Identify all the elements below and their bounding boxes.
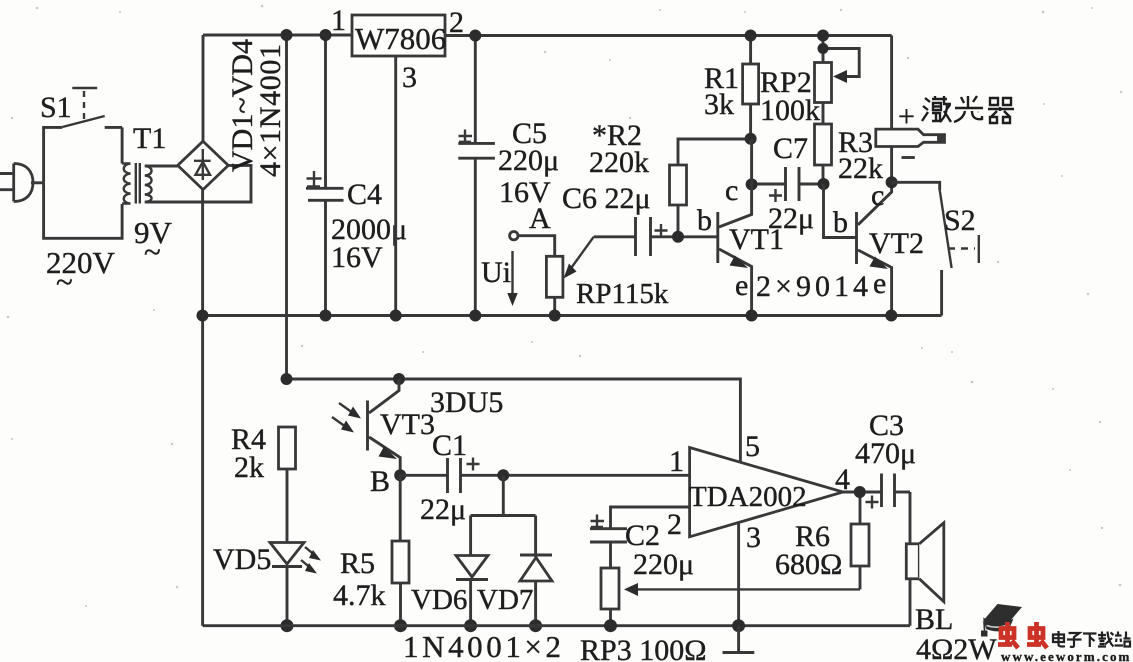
svg-text:C4: C4 [347,178,382,211]
svg-text:VD6: VD6 [411,584,467,616]
svg-text:3: 3 [402,61,417,94]
junction [886,176,898,188]
svg-text:VD5: VD5 [213,543,271,576]
svg-text:2k: 2k [234,451,264,484]
svg-text:3DU5: 3DU5 [430,386,503,419]
svg-text:5: 5 [745,430,760,463]
junction [885,310,897,322]
junction [732,619,745,632]
svg-text:680Ω: 680Ω [775,548,842,581]
svg-text:www.eeworm.com: www.eeworm.com [1001,649,1131,662]
svg-text:1: 1 [669,445,684,478]
junction [281,619,294,632]
svg-text:A: A [529,202,551,235]
svg-text:220μ: 220μ [498,144,559,177]
svg-text:2: 2 [667,508,682,541]
svg-text:c: c [871,179,884,212]
switch S1 [40,88,122,183]
junction [469,30,481,42]
svg-text:220k: 220k [589,146,649,179]
svg-text:W7806: W7806 [355,21,446,56]
wire supply line to TDA pin5 [287,379,741,462]
resistor R1 [704,36,759,140]
node A terminal [510,202,555,256]
svg-text:~: ~ [56,264,73,299]
junction [746,178,758,190]
svg-text:4Ω2W: 4Ω2W [916,633,997,662]
junction [604,619,617,632]
svg-text:TDA2002: TDA2002 [689,481,807,513]
junction [394,469,406,481]
wire secondary top [145,165,178,168]
wire pin3 [737,523,740,626]
svg-text:VT2: VT2 [869,227,924,260]
junction [746,310,758,322]
svg-text:4.7k: 4.7k [333,579,386,612]
speaker BL [906,492,997,662]
wire pin2 [611,507,690,529]
junction [320,29,332,41]
svg-text:VD7: VD7 [477,584,533,616]
potentiometer RP2 [760,36,859,128]
junction [197,310,209,322]
svg-text:RP115k: RP115k [576,278,669,310]
junction [469,310,481,322]
bridge rectifier VD1~VD4 [178,141,229,189]
junction [529,619,542,632]
LED VD5 [213,543,321,626]
svg-text:B: B [370,465,390,498]
svg-text:220μ: 220μ [633,548,694,581]
junction [320,310,332,322]
svg-text:+: + [898,100,915,133]
capacitor C4 [306,35,407,316]
junction [549,310,561,322]
watermark logo [981,604,1022,637]
regulator U1 W7806 [331,4,464,94]
junction [281,373,293,385]
junction [497,469,509,481]
svg-text:RP3 100Ω: RP3 100Ω [580,634,707,662]
svg-text:e: e [873,267,886,300]
junction [854,486,866,498]
capacitor C3 [855,409,916,509]
junction [745,30,757,42]
wire bottom rail [203,624,910,627]
svg-text:2: 2 [449,6,464,39]
wire top rail right [445,34,892,37]
plug P1 [0,164,44,202]
diodes VD6 VD7 [403,475,561,662]
junction [464,619,477,632]
potentiometer RP3 [580,568,860,662]
resistor R6 [775,492,869,589]
phototransistor VT3 [332,379,503,475]
resistor R4 [231,423,296,543]
svg-text:3k: 3k [704,88,734,121]
potentiometer RP1 [546,237,668,316]
wire pin4 out [843,491,882,494]
svg-text:C6 22μ: C6 22μ [562,182,651,215]
svg-text:100k: 100k [760,94,820,127]
svg-text:1N4001×2: 1N4001×2 [403,629,561,662]
svg-text:16V: 16V [331,241,383,274]
svg-text:3: 3 [746,521,761,554]
wire R4 branch vertical [285,35,288,379]
logo 电子下载站 black [1053,631,1131,647]
svg-text:VT1: VT1 [729,223,784,256]
svg-text:b: b [833,206,848,239]
wire secondary bottom loop [145,165,251,202]
svg-text:1: 1 [331,4,346,37]
transformer T1 [122,122,166,204]
svg-text:R5: R5 [340,547,375,580]
svg-text:S2: S2 [944,204,976,237]
wire mid rail [203,314,892,317]
svg-text:VT3: VT3 [380,408,435,441]
junction [390,310,402,322]
capacitor C7 [752,132,824,235]
svg-text:~: ~ [144,234,161,269]
logo 虫虫 red [998,622,1047,648]
ground [723,626,755,653]
capacitor C6 [562,182,718,256]
label Ui input arrow [481,251,518,306]
cap icon [983,604,1023,624]
laser device [876,36,945,183]
resistor R5 [333,475,409,625]
svg-text:c: c [725,174,738,207]
label 激光器 (hand drawn) [922,96,1014,123]
junction [281,29,293,41]
transistor VT2 [824,179,925,316]
junction [818,178,830,190]
svg-text:e: e [735,269,748,302]
svg-text:T1: T1 [133,122,166,155]
svg-text:4×1N4001: 4×1N4001 [254,44,287,177]
capacitor C2 [590,515,694,582]
wire left vertical upper [202,35,205,141]
transistor VT1 [697,139,784,316]
amplifier U2 TDA2002 [667,430,850,554]
svg-text:C1: C1 [432,429,467,462]
junction [817,30,829,42]
switch S2 [892,182,979,315]
svg-text:470μ: 470μ [855,437,916,470]
capacitor C5 [458,36,559,316]
svg-text:C7: C7 [773,132,808,165]
wire pin3 [394,56,397,316]
junction [393,373,405,385]
wire primary loop [44,183,123,239]
wire mid rail S2 extension [891,314,941,317]
resistor R3 [815,103,884,186]
junction [672,231,684,243]
svg-text:22μ: 22μ [420,493,466,526]
wire left vertical lower [201,190,204,626]
svg-text:2×9014: 2×9014 [756,270,868,303]
resistor R2 [589,119,751,237]
junction [394,619,407,632]
junction [745,133,757,145]
svg-text:Ui: Ui [481,256,511,289]
junction [818,43,829,54]
wire top rail left [203,34,352,37]
svg-text:S1: S1 [40,91,72,124]
capacitor C1 [400,429,689,526]
svg-text:b: b [697,204,712,237]
svg-text:BL: BL [915,603,953,636]
